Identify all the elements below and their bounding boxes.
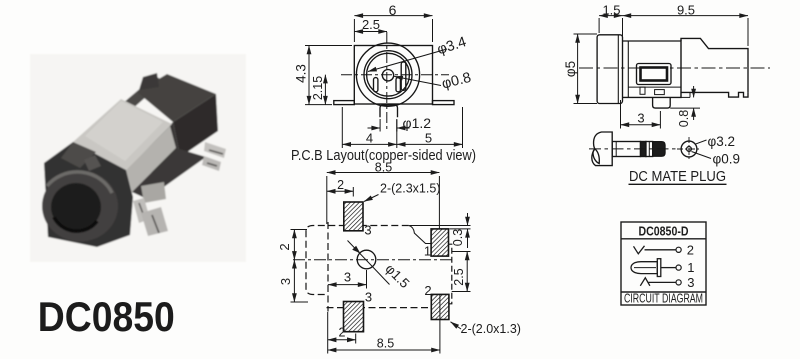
svg-text:3: 3 xyxy=(278,278,293,285)
plug handle with cable break xyxy=(592,132,612,166)
top tab xyxy=(681,38,748,92)
front body dark mass xyxy=(44,142,133,247)
dim 3 circle vertical ext xyxy=(366,270,368,289)
ring circle inner (hole 3.4) xyxy=(367,53,410,96)
circuit box title separator xyxy=(621,238,706,240)
terminal circle 3 xyxy=(676,280,681,285)
metal shield top face xyxy=(73,99,172,170)
svg-text:2.5: 2.5 xyxy=(362,17,380,32)
svg-text:DC0850: DC0850 xyxy=(38,293,175,340)
svg-text:φ1.5: φ1.5 xyxy=(382,261,412,291)
outline dashed left vertical xyxy=(327,222,329,312)
connector rear block notch xyxy=(139,73,159,90)
pad bottom-left xyxy=(344,302,364,332)
dim 8.5 bottom extension lines xyxy=(327,312,329,354)
end view outer circle xyxy=(681,141,697,157)
dim 3 left line xyxy=(293,260,295,302)
center pin bar xyxy=(657,259,661,277)
slot bottom-right xyxy=(396,78,400,92)
dim phi1.2 extension lines xyxy=(379,119,381,132)
bottom pin left xyxy=(133,198,150,223)
dim 6 line xyxy=(354,15,432,17)
bottom pin right xyxy=(141,207,168,236)
wire pin 1 xyxy=(661,267,676,269)
bottom protrusion xyxy=(380,105,398,117)
outline dashed top edge with left notch xyxy=(306,226,409,295)
svg-text:2.5: 2.5 xyxy=(452,268,466,285)
dim 4 line xyxy=(342,143,397,145)
end view crosshair horizontal xyxy=(677,148,701,150)
jack body outline (top view) xyxy=(354,46,432,105)
body edge band above shield xyxy=(97,76,164,132)
svg-text:0.3: 0.3 xyxy=(451,229,465,246)
plug bullet symbol xyxy=(631,262,657,274)
dim 2 top line xyxy=(327,190,354,192)
dim 1.5 line xyxy=(599,15,622,17)
dim 2.15 line xyxy=(324,75,326,105)
wire pin 2 xyxy=(645,249,676,251)
svg-text:1: 1 xyxy=(424,244,431,259)
svg-text:DC MATE PLUG: DC MATE PLUG xyxy=(629,169,726,185)
insulator ring xyxy=(646,142,653,157)
barrel rim light arc xyxy=(47,172,112,193)
svg-text:4: 4 xyxy=(366,131,373,146)
svg-text:φ5: φ5 xyxy=(563,61,578,77)
pad 2 right xyxy=(431,294,449,319)
dim 3 circle line xyxy=(328,284,367,286)
leader phi1.5 arrowhead xyxy=(352,246,360,254)
svg-text:2.15: 2.15 xyxy=(311,76,325,100)
plug bullet axis line xyxy=(634,267,656,269)
slot bottom-left xyxy=(374,78,378,92)
dim 4.3 line xyxy=(308,46,310,105)
circuit box outer xyxy=(621,222,706,305)
flange inner edge line xyxy=(617,35,619,103)
svg-text:2-(2.3x1.5): 2-(2.3x1.5) xyxy=(380,182,440,196)
dim 4.3 extension lines xyxy=(305,45,352,47)
dim 5 line xyxy=(397,143,463,145)
dim 0.8 arrows outside xyxy=(693,86,695,97)
dim 0.8 ext line xyxy=(670,107,700,109)
dim 3 extension lines xyxy=(620,100,622,129)
connector rear block right face xyxy=(173,94,218,157)
vertical centerline xyxy=(386,32,388,131)
body inner vertical line xyxy=(627,41,629,97)
center pin hole 0.8 xyxy=(382,70,393,81)
connector rear block front face xyxy=(127,122,180,176)
svg-text:CIRCUIT DIAGRAM: CIRCUIT DIAGRAM xyxy=(624,291,703,306)
DC MATE PLUG underline xyxy=(629,183,727,185)
svg-text:2: 2 xyxy=(337,178,344,192)
barrel outer circle xyxy=(356,43,419,106)
leader phi3.4 xyxy=(368,49,447,72)
window inner dark xyxy=(641,68,668,81)
dim 4-5 extension lines xyxy=(341,107,343,148)
leader 2-(2.3x1.5) xyxy=(364,195,379,202)
metal shield right face xyxy=(126,126,176,192)
barrel inner line xyxy=(615,142,617,157)
svg-text:φ1.2: φ1.2 xyxy=(403,115,432,131)
photo background xyxy=(30,54,246,262)
metal shield highlight xyxy=(85,101,163,161)
bottom pin protrusion xyxy=(653,97,671,108)
svg-text:2: 2 xyxy=(277,243,292,250)
barrel black band xyxy=(641,142,646,157)
end view center dot xyxy=(688,148,690,150)
svg-text:φ0.8: φ0.8 xyxy=(440,70,473,93)
outline dashed bottom edge xyxy=(327,307,449,309)
right pin lower xyxy=(202,156,221,171)
mounting tab left xyxy=(334,101,355,105)
svg-text:2: 2 xyxy=(339,326,346,340)
screw detail on shield xyxy=(84,155,101,171)
dim 0.3 extension lines xyxy=(410,225,471,227)
insulator ring line xyxy=(648,142,650,157)
dim 2 left line xyxy=(293,230,295,260)
svg-text:3: 3 xyxy=(365,290,372,305)
svg-text:9.5: 9.5 xyxy=(677,3,695,18)
right section bottom with feet xyxy=(681,92,748,97)
svg-text:3: 3 xyxy=(364,223,371,238)
wire pin 3 xyxy=(649,281,676,283)
terminal circle 1 xyxy=(676,265,681,270)
right pin upper xyxy=(204,142,226,158)
window outer xyxy=(637,64,672,85)
side view centerline xyxy=(579,67,770,69)
flange front xyxy=(597,35,622,104)
dim 3 line xyxy=(621,124,661,126)
dim 1.5/9.5 extension lines xyxy=(598,18,600,33)
svg-text:3: 3 xyxy=(687,275,694,290)
horizontal centerline xyxy=(293,259,455,261)
svg-text:2: 2 xyxy=(424,283,431,298)
plug tip black xyxy=(653,142,665,157)
body rectangle xyxy=(623,41,682,97)
connector rear block top face xyxy=(137,74,216,122)
dim 8.5 bottom line xyxy=(328,349,440,351)
svg-text:2-(2.0x1.3): 2-(2.0x1.3) xyxy=(461,322,521,336)
left dims extension lines xyxy=(291,229,308,231)
outline squiggle to pad 1 xyxy=(409,226,431,244)
svg-text:5: 5 xyxy=(425,131,432,146)
dim 2.5 line xyxy=(466,252,468,292)
inner bottom shelf xyxy=(628,86,681,88)
side tab metal xyxy=(141,182,166,203)
svg-text:1: 1 xyxy=(687,260,694,275)
slot right tall xyxy=(401,62,406,90)
break contact pin 3 xyxy=(640,278,650,286)
horizontal centerline xyxy=(341,74,449,76)
svg-text:0.8: 0.8 xyxy=(677,110,691,127)
svg-text:φ3.2: φ3.2 xyxy=(708,134,736,149)
inner bottom tab a xyxy=(640,87,645,94)
dim phi5 line xyxy=(577,34,579,104)
dim 2 top ext tick xyxy=(352,187,354,197)
mounting tab right xyxy=(433,101,455,105)
svg-text:1.5: 1.5 xyxy=(602,3,620,18)
dim 9.5 line xyxy=(623,15,749,17)
dim 8.5 top line xyxy=(327,172,440,174)
right pin upper slot xyxy=(209,150,223,154)
bottom pin left slot xyxy=(139,203,145,219)
svg-text:3: 3 xyxy=(344,270,351,285)
barrel outer ring xyxy=(42,171,118,242)
end view crosshair vertical xyxy=(688,137,690,161)
body facet above barrel xyxy=(61,142,96,168)
center hole 1.5 xyxy=(357,250,376,269)
terminal circle 2 xyxy=(676,247,681,252)
pad 1 right xyxy=(431,229,448,256)
ring circle outer xyxy=(364,51,412,99)
dim 2.5 extension lines xyxy=(452,251,471,253)
dim phi1.2 arrows xyxy=(368,127,381,129)
end view pin hole xyxy=(687,147,692,152)
dim 2 bottom ext tick xyxy=(355,334,357,344)
svg-text:4.3: 4.3 xyxy=(294,64,309,83)
svg-text:8.5: 8.5 xyxy=(377,337,394,351)
svg-text:8.5: 8.5 xyxy=(375,161,392,175)
leader phi0.8 xyxy=(394,76,441,85)
barrel inner hole xyxy=(51,183,101,231)
svg-text:φ3.4: φ3.4 xyxy=(435,34,468,58)
plug centerline xyxy=(589,148,679,150)
leader phi3.2 xyxy=(695,140,707,144)
dim 0.3 arrows outside xyxy=(467,213,469,226)
svg-text:φ0.9: φ0.9 xyxy=(713,152,741,167)
svg-text:2: 2 xyxy=(687,242,694,257)
outline dashed right side xyxy=(446,244,451,304)
handle break lens xyxy=(593,149,599,164)
svg-text:3: 3 xyxy=(637,111,644,126)
body bottom edge extended xyxy=(681,96,690,98)
leader phi0.9 xyxy=(692,152,712,159)
plug barrel xyxy=(612,142,640,157)
leader phi1.5 diagonal xyxy=(348,241,390,285)
inner bottom tab b xyxy=(655,90,665,95)
leader 2-(2.0x1.3) xyxy=(451,322,462,329)
circuit box bottom separator xyxy=(621,291,706,293)
dim 2.5 line xyxy=(354,31,387,33)
switch contact pin 2 xyxy=(634,246,645,254)
body side dark band xyxy=(132,148,206,199)
dim 8.5 top extension lines xyxy=(326,176,328,224)
dim 2 bottom line xyxy=(328,339,356,341)
pad top-left xyxy=(344,202,363,231)
svg-text:DC0850-D: DC0850-D xyxy=(639,223,689,238)
svg-text:6: 6 xyxy=(389,2,397,18)
dim 6 extension lines xyxy=(353,19,355,42)
bottom pin right slot xyxy=(152,215,159,233)
right pin lower slot xyxy=(207,163,217,166)
barrel hole shade xyxy=(54,217,97,231)
dim phi5 extension lines xyxy=(574,33,598,35)
right section divider xyxy=(680,38,682,97)
